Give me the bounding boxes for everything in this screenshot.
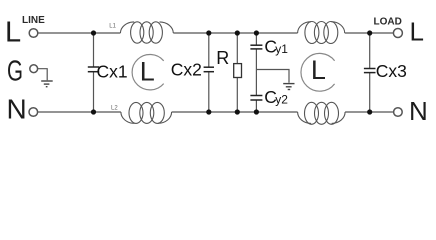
junction bottom Cx2 <box>206 109 211 114</box>
wire top: L terminal to L1 <box>38 32 121 34</box>
svg-text:L: L <box>311 55 326 85</box>
junction bottom Cx3 <box>367 109 372 114</box>
wire Cx2 column <box>208 33 210 112</box>
wire Cx3 column <box>369 33 371 112</box>
svg-text:LINE: LINE <box>22 15 45 26</box>
capacitor Cx2 <box>204 67 214 72</box>
common-mode choke core left (L) <box>132 54 164 89</box>
svg-text:Cx2: Cx2 <box>171 59 202 79</box>
svg-text:L2: L2 <box>111 106 118 112</box>
junction top Cx2 <box>206 30 211 35</box>
svg-text:Cx3: Cx3 <box>376 61 407 81</box>
wire R column <box>236 33 238 112</box>
capacitor Cy1 <box>250 45 262 49</box>
svg-text:L: L <box>410 16 424 46</box>
junction bottom Cy2 <box>254 109 259 114</box>
svg-text:y2: y2 <box>275 93 288 107</box>
wire top: right coil to load terminal <box>345 32 394 34</box>
terminal L line <box>29 29 38 38</box>
wire bottom: right coil to load terminal <box>345 111 394 113</box>
terminal G <box>30 65 38 73</box>
svg-text:N: N <box>7 94 27 125</box>
wire Cx1 column <box>93 33 95 112</box>
svg-text:N: N <box>409 96 428 126</box>
svg-text:L1: L1 <box>109 23 116 29</box>
inductor L2 <box>121 102 172 123</box>
capacitor Cx1 <box>88 67 99 72</box>
junction top Cx1 <box>91 30 96 35</box>
svg-text:L: L <box>140 57 155 87</box>
wire bottom: L2 to right coil <box>172 111 298 113</box>
inductor top-right <box>298 22 345 44</box>
svg-text:y1: y1 <box>275 42 288 56</box>
junction top Cx3 <box>367 30 372 35</box>
capacitor Cx3 <box>364 69 376 73</box>
inductor L1 <box>120 22 173 43</box>
ground symbol (G terminal) <box>41 81 53 87</box>
wire bottom: N terminal to L2 <box>38 111 121 113</box>
resistor R <box>234 64 242 78</box>
wire G to ground <box>38 69 47 81</box>
wire Cy midpoint to ground <box>256 70 289 83</box>
wire Cy column <box>255 33 257 112</box>
svg-text:L: L <box>5 17 21 49</box>
junction top Cy1 <box>254 30 259 35</box>
terminal N line <box>29 108 38 117</box>
common-mode choke core right (L) <box>301 53 335 91</box>
terminal N load <box>394 108 403 117</box>
svg-text:R: R <box>216 48 229 68</box>
inductor bottom-right <box>298 102 346 124</box>
terminal L load <box>393 29 402 38</box>
junction top R <box>235 30 240 35</box>
svg-text:G: G <box>7 55 23 87</box>
ground symbol (Cy midpoint) <box>283 84 294 90</box>
capacitor Cy2 <box>250 96 262 101</box>
svg-text:LOAD: LOAD <box>374 17 402 28</box>
junction bottom Cx1 <box>91 109 96 114</box>
svg-text:Cx1: Cx1 <box>97 61 128 81</box>
junction bottom R <box>235 109 240 114</box>
wire top: L1 to right coil <box>173 32 297 34</box>
